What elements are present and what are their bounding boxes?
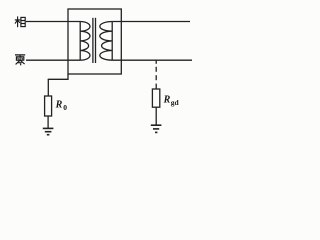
svg-text:R: R bbox=[163, 95, 171, 106]
svg-text:0: 0 bbox=[63, 103, 67, 112]
svg-text:gd: gd bbox=[171, 98, 180, 107]
svg-text:R: R bbox=[55, 100, 63, 111]
